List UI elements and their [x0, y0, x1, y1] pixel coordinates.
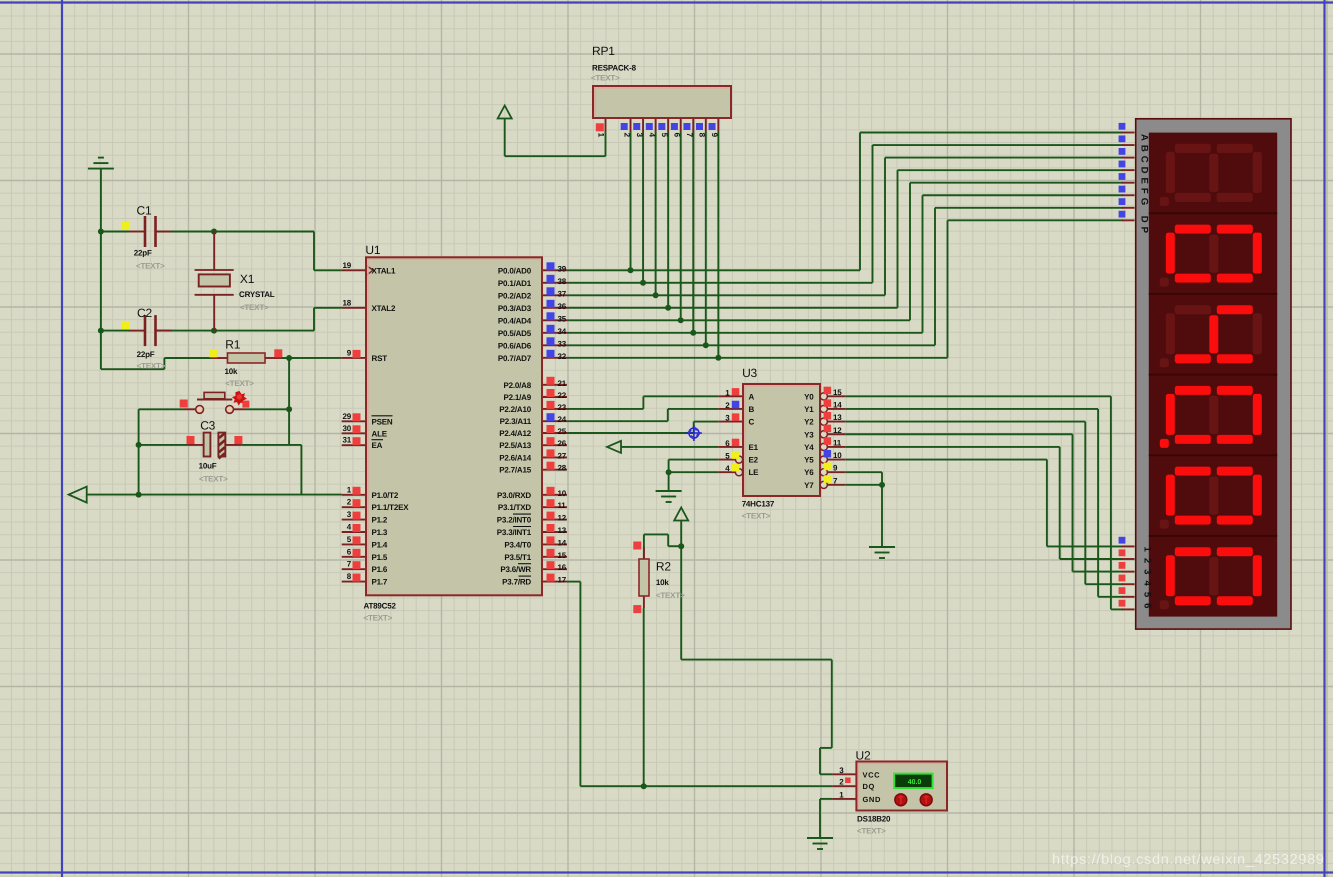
svg-text:P2.3/A11: P2.3/A11 [500, 417, 532, 426]
svg-text:P1.6: P1.6 [372, 565, 388, 574]
svg-text:P0.0/AD0: P0.0/AD0 [498, 266, 532, 275]
svg-text:P3.4/T0: P3.4/T0 [504, 540, 531, 549]
svg-text:R2: R2 [656, 560, 671, 574]
svg-text:11: 11 [833, 438, 842, 447]
svg-text:10k: 10k [656, 578, 669, 587]
svg-text:33: 33 [558, 339, 567, 348]
svg-text:VCC: VCC [863, 770, 881, 779]
svg-text:11: 11 [558, 501, 567, 510]
svg-text:C1: C1 [137, 204, 152, 218]
svg-text:LE: LE [749, 468, 760, 477]
svg-text:6: 6 [673, 133, 682, 138]
svg-text:<TEXT>: <TEXT> [137, 362, 166, 371]
svg-text:P1.2: P1.2 [372, 516, 388, 525]
svg-text:Y6: Y6 [804, 468, 814, 477]
svg-text:<TEXT>: <TEXT> [591, 74, 620, 83]
svg-text:P2.5/A13: P2.5/A13 [499, 441, 532, 450]
svg-text:<TEXT>: <TEXT> [136, 262, 165, 271]
svg-text:P2.6/A14: P2.6/A14 [499, 453, 532, 462]
svg-text:B: B [749, 405, 755, 414]
svg-text:16: 16 [558, 563, 567, 572]
svg-text:39: 39 [558, 264, 567, 273]
svg-text:40.0: 40.0 [908, 779, 922, 786]
svg-text:U1: U1 [365, 243, 380, 257]
svg-text:P3.7/RD: P3.7/RD [502, 578, 531, 587]
svg-text:P2.4/A12: P2.4/A12 [499, 429, 532, 438]
svg-text:37: 37 [558, 289, 567, 298]
svg-text:CRYSTAL: CRYSTAL [239, 290, 275, 299]
svg-text:Y4: Y4 [804, 443, 814, 452]
svg-text:P2.7/A15: P2.7/A15 [499, 466, 532, 475]
svg-text:74HC137: 74HC137 [742, 500, 775, 509]
svg-text:E1: E1 [749, 443, 759, 452]
svg-text:U2: U2 [856, 749, 871, 763]
svg-text:P2.1/A9: P2.1/A9 [503, 393, 531, 402]
svg-text:32: 32 [558, 352, 567, 361]
svg-text:P3.5/T1: P3.5/T1 [504, 553, 531, 562]
svg-text:X1: X1 [240, 272, 255, 286]
svg-text:XTAL2: XTAL2 [372, 304, 396, 313]
svg-text:13: 13 [833, 413, 842, 422]
svg-text:5: 5 [660, 133, 669, 138]
svg-text:15: 15 [558, 551, 567, 560]
svg-text:XTAL1: XTAL1 [372, 266, 396, 275]
svg-text:28: 28 [558, 464, 567, 473]
svg-text:10uF: 10uF [199, 462, 217, 471]
svg-text:<TEXT>: <TEXT> [240, 303, 269, 312]
svg-text:P0.7/AD7: P0.7/AD7 [498, 354, 532, 363]
svg-text:2: 2 [622, 133, 631, 138]
svg-text:24: 24 [558, 415, 567, 424]
svg-text:35: 35 [558, 314, 567, 323]
svg-text:Y3: Y3 [804, 430, 814, 439]
svg-text:34: 34 [558, 327, 567, 336]
svg-text:U3: U3 [742, 366, 757, 380]
svg-text:10: 10 [833, 451, 842, 460]
svg-text:7: 7 [685, 133, 694, 138]
svg-text:P0.2/AD2: P0.2/AD2 [498, 291, 532, 300]
svg-text:<TEXT>: <TEXT> [225, 379, 254, 388]
svg-text:EA: EA [372, 441, 383, 450]
svg-text:14: 14 [558, 538, 567, 547]
svg-text:P3.1/TXD: P3.1/TXD [498, 503, 532, 512]
svg-text:P1.7: P1.7 [372, 578, 388, 587]
svg-text:P0.3/AD3: P0.3/AD3 [498, 304, 532, 313]
svg-text:P0.1/AD1: P0.1/AD1 [498, 279, 532, 288]
svg-text:GND: GND [863, 795, 881, 804]
svg-text:36: 36 [558, 302, 567, 311]
svg-text:10k: 10k [225, 367, 238, 376]
svg-text:P0.5/AD5: P0.5/AD5 [498, 329, 532, 338]
svg-text:RESPACK-8: RESPACK-8 [592, 64, 637, 73]
svg-text:P1.4: P1.4 [372, 540, 388, 549]
svg-text:<TEXT>: <TEXT> [199, 475, 228, 484]
svg-text:21: 21 [558, 379, 567, 388]
svg-text:RP1: RP1 [592, 44, 615, 58]
svg-text:P0.4/AD4: P0.4/AD4 [498, 316, 532, 325]
svg-text:Y0: Y0 [804, 392, 814, 401]
svg-text:23: 23 [558, 403, 567, 412]
svg-text:P2.2/A10: P2.2/A10 [499, 405, 532, 414]
svg-text:P0.6/AD6: P0.6/AD6 [498, 341, 532, 350]
svg-text:<TEXT>: <TEXT> [656, 591, 685, 600]
svg-text:<TEXT>: <TEXT> [364, 614, 393, 623]
svg-text:P3.0/RXD: P3.0/RXD [497, 491, 531, 500]
svg-text:Y1: Y1 [804, 405, 814, 414]
svg-text:P1.1/T2EX: P1.1/T2EX [372, 503, 410, 512]
svg-text:4: 4 [647, 133, 656, 138]
svg-text:A: A [749, 392, 755, 401]
svg-text:10: 10 [558, 489, 567, 498]
svg-text:13: 13 [558, 526, 567, 535]
svg-text:19: 19 [343, 261, 352, 270]
svg-text:1: 1 [597, 133, 606, 138]
svg-text:RST: RST [372, 354, 388, 363]
svg-text:12: 12 [833, 426, 842, 435]
svg-text:AT89C52: AT89C52 [364, 602, 397, 611]
svg-text:29: 29 [343, 412, 352, 421]
svg-text:C: C [749, 418, 755, 427]
svg-text:<TEXT>: <TEXT> [857, 827, 886, 836]
svg-text:P1.5: P1.5 [372, 553, 388, 562]
svg-text:Y5: Y5 [804, 456, 814, 465]
svg-text:30: 30 [343, 424, 352, 433]
svg-text:18: 18 [343, 298, 352, 307]
svg-text:26: 26 [558, 439, 567, 448]
svg-text:PSEN: PSEN [372, 417, 393, 426]
svg-text:C3: C3 [200, 419, 215, 433]
svg-text:P3.2/INT0: P3.2/INT0 [497, 516, 532, 525]
svg-text:Y2: Y2 [804, 418, 814, 427]
svg-text:P3.6/WR: P3.6/WR [500, 565, 531, 574]
svg-text:https://blog.csdn.net/weixin_4: https://blog.csdn.net/weixin_42532989 [1052, 852, 1324, 868]
svg-text:DQ: DQ [863, 782, 875, 791]
svg-text:3: 3 [635, 133, 644, 138]
svg-text:C2: C2 [137, 306, 152, 320]
svg-text:DS18B20: DS18B20 [857, 815, 891, 824]
svg-text:22pF: 22pF [134, 249, 152, 258]
svg-text:17: 17 [558, 576, 567, 585]
svg-text:38: 38 [558, 277, 567, 286]
svg-text:ABCDEFG DP: ABCDEFG DP [1139, 134, 1150, 234]
svg-text:22: 22 [558, 391, 567, 400]
svg-text:8: 8 [698, 133, 707, 138]
svg-text:25: 25 [558, 427, 567, 436]
svg-text:E2: E2 [749, 456, 759, 465]
svg-text:22pF: 22pF [137, 350, 155, 359]
svg-text:P2.0/A8: P2.0/A8 [503, 381, 531, 390]
svg-text:27: 27 [558, 451, 567, 460]
svg-text:P3.3/INT1: P3.3/INT1 [497, 528, 532, 537]
svg-text:<TEXT>: <TEXT> [742, 512, 771, 521]
svg-text:ALE: ALE [372, 429, 388, 438]
svg-text:15: 15 [833, 388, 842, 397]
svg-text:R1: R1 [225, 338, 240, 352]
svg-text:12: 12 [558, 514, 567, 523]
svg-text:P1.3: P1.3 [372, 528, 388, 537]
svg-text:31: 31 [343, 436, 352, 445]
svg-text:Y7: Y7 [804, 481, 814, 490]
svg-text:14: 14 [833, 400, 842, 409]
svg-text:P1.0/T2: P1.0/T2 [372, 491, 399, 500]
svg-text:9: 9 [710, 133, 719, 138]
